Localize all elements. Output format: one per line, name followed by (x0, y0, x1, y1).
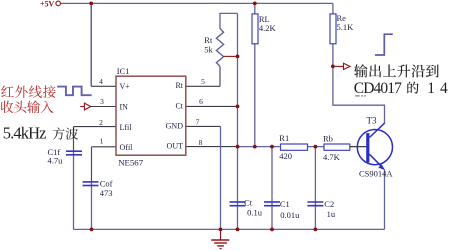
svg-text:NE567: NE567 (118, 158, 144, 168)
svg-text:4.7u: 4.7u (48, 156, 64, 166)
svg-text:IC1: IC1 (117, 66, 130, 76)
svg-text:0.01u: 0.01u (280, 210, 300, 220)
svg-text:473: 473 (100, 188, 113, 198)
svg-text:1: 1 (427, 80, 435, 97)
svg-text:2: 2 (99, 118, 103, 127)
svg-text:1u: 1u (327, 209, 336, 219)
svg-text:5.4kHz: 5.4kHz (3, 124, 46, 143)
svg-text:6: 6 (199, 97, 203, 106)
svg-text:CD4017: CD4017 (354, 80, 402, 97)
svg-text:5k: 5k (204, 45, 213, 55)
svg-text:C1: C1 (280, 199, 290, 209)
svg-text:4: 4 (440, 80, 448, 97)
svg-text:5: 5 (201, 77, 205, 86)
svg-text:Lfil: Lfil (120, 123, 133, 132)
svg-text:+5V: +5V (40, 0, 55, 9)
svg-text:IN: IN (120, 103, 129, 112)
svg-text:4.2K: 4.2K (259, 23, 277, 33)
svg-text:Rb: Rb (323, 134, 333, 144)
svg-text:8: 8 (199, 138, 203, 147)
svg-text:R1: R1 (279, 133, 289, 143)
svg-text:Ct: Ct (175, 102, 183, 111)
svg-text:420: 420 (279, 151, 292, 161)
svg-text:0.1u: 0.1u (247, 208, 263, 218)
svg-text:4: 4 (99, 77, 103, 86)
svg-text:5.1K: 5.1K (337, 22, 355, 32)
svg-text:1: 1 (100, 137, 104, 146)
svg-text:Rt: Rt (175, 81, 183, 90)
svg-text:Ofil: Ofil (120, 143, 134, 152)
svg-text:T3: T3 (367, 115, 377, 125)
svg-text:C2: C2 (324, 199, 334, 209)
svg-text:Ct: Ct (244, 198, 253, 208)
svg-text:CS9014A: CS9014A (359, 168, 393, 178)
svg-text:V+: V+ (120, 82, 131, 91)
svg-text:3: 3 (100, 97, 104, 106)
svg-text:OUT: OUT (167, 142, 184, 151)
svg-text:7: 7 (196, 118, 200, 127)
svg-text:4.7K: 4.7K (323, 152, 341, 162)
svg-text:Rt: Rt (204, 35, 213, 45)
svg-text:GND: GND (166, 121, 184, 130)
